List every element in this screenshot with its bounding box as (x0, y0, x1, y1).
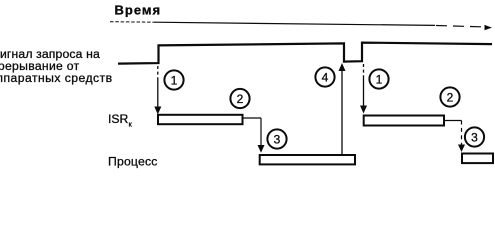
svg-text:Время: Время (115, 3, 162, 18)
event arrow 4 (process resumes -> up to falling edge) (341, 70, 343, 155)
Process bar 1 (260, 155, 355, 164)
svg-text:3: 3 (471, 130, 478, 144)
event arrow 1b (second ISR start, dashed then solid) (363, 64, 365, 107)
event circle 1a (164, 70, 183, 89)
svg-text:ISR: ISR (108, 112, 129, 126)
event circle 1b (369, 69, 388, 88)
elbow connector ISR2 to Process2 (dashed drop) (444, 121, 462, 147)
svg-text:2: 2 (447, 90, 454, 104)
svg-text:4: 4 (322, 70, 329, 84)
svg-text:1: 1 (376, 72, 383, 86)
svg-text:аппаратных средств: аппаратных средств (0, 71, 113, 85)
time arrowhead (485, 25, 493, 30)
event circle 2a (230, 89, 249, 108)
svg-text:2: 2 (237, 92, 244, 106)
event arrow 1a (ISR start, dashed then solid) (157, 66, 159, 108)
ISR bar 1 (158, 115, 243, 124)
ISR bar 2 (364, 116, 444, 126)
event circle 3b (465, 127, 484, 146)
event circle 3a (267, 129, 286, 148)
svg-text:3: 3 (274, 132, 281, 146)
svg-text:Процесс: Процесс (108, 155, 158, 169)
Process bar 2 (462, 154, 493, 164)
svg-text:1: 1 (171, 73, 178, 87)
event circle 4 (315, 67, 334, 86)
time axis arrow (110, 22, 484, 27)
interrupt request waveform (118, 43, 492, 64)
event circle 2b (440, 87, 459, 106)
elbow connector ISR1 to Process1 (243, 118, 262, 147)
